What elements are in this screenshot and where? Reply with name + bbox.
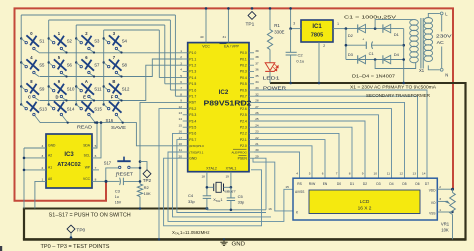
svg-text:P0.5: P0.5 (240, 82, 247, 86)
capacitor C5 33p (227, 187, 245, 210)
svg-text:IC3: IC3 (64, 152, 74, 158)
svg-text:A: A (85, 79, 88, 84)
IC3 ground tie wire (GND/A2/A1) (23, 148, 46, 209)
svg-text:S1–S17 = PUSH TO ON SWITCH: S1–S17 = PUSH TO ON SWITCH (49, 212, 131, 218)
switch S1 (key 0) (20, 31, 45, 52)
svg-text:P2.6: P2.6 (240, 107, 247, 111)
svg-text:P0.1: P0.1 (240, 57, 247, 61)
svg-text:WP: WP (85, 165, 91, 169)
wire P3.6 nest run (173, 133, 272, 217)
ground rail (power supply) (270, 82, 466, 84)
svg-text:VCC: VCC (83, 177, 91, 181)
svg-text:D5: D5 (402, 182, 406, 186)
bridge bottom branch wire (346, 59, 404, 61)
svg-text:ALE/PROG: ALE/PROG (231, 150, 247, 154)
svg-text:2: 2 (323, 44, 325, 48)
switch S14 (key D) (48, 95, 75, 124)
svg-text:10K: 10K (441, 227, 449, 232)
wire IC2 to LCD pin 11 (254, 109, 392, 179)
svg-text:7: 7 (336, 171, 338, 175)
svg-text:P2.7: P2.7 (240, 101, 247, 105)
node R2-ground (139, 207, 142, 210)
svg-text:S8: S8 (122, 63, 128, 68)
svg-text:5: 5 (95, 144, 97, 148)
svg-text:D6: D6 (415, 182, 419, 186)
svg-text:TP0: TP0 (76, 227, 85, 233)
svg-text:AT24C02: AT24C02 (57, 162, 81, 168)
svg-text:1: 1 (337, 22, 339, 26)
svg-text:D2: D2 (348, 33, 354, 38)
+5V supply net (red) (15, 8, 454, 200)
svg-text:P1.4: P1.4 (189, 76, 196, 80)
svg-text:TP1: TP1 (246, 21, 255, 27)
bridge right vertical wire to ground rail (403, 29, 405, 83)
svg-text:6: 6 (322, 171, 324, 175)
svg-text:5: 5 (309, 171, 311, 175)
switch S5 (key 4) (20, 55, 45, 76)
svg-text:D: D (55, 95, 58, 100)
resistor R1 330E (267, 7, 284, 63)
diode D1 1N4007 (383, 24, 400, 37)
svg-text:P1.0: P1.0 (189, 51, 196, 55)
bridge left vertical wire (345, 29, 347, 60)
svg-text:XTAL1=11.0592MHz: XTAL1=11.0592MHz (172, 230, 210, 236)
svg-text:P0.0: P0.0 (240, 51, 247, 55)
svg-text:EN: EN (323, 182, 328, 186)
svg-text:1: 1 (439, 208, 441, 212)
IC2 P89V51RD2 microcontroller (179, 43, 259, 172)
svg-text:value?: value? (224, 189, 235, 193)
svg-text:P1.3: P1.3 (189, 70, 196, 74)
svg-text:C4: C4 (188, 193, 194, 198)
svg-text:R/W: R/W (309, 182, 316, 186)
wire IC2 to LCD pin 12 (254, 102, 405, 178)
wire P3.1 to LCD A/VSS (168, 152, 293, 221)
diode D4 1N4007 (383, 52, 400, 64)
svg-text:C1 = 1000u,25V: C1 = 1000u,25V (344, 15, 397, 20)
svg-text:2: 2 (439, 185, 441, 189)
svg-text:RESET: RESET (116, 171, 133, 176)
svg-text:SCL: SCL (84, 153, 91, 157)
svg-text:VDD: VDD (429, 189, 436, 193)
svg-text:6: 6 (95, 154, 97, 158)
svg-text:39: 39 (255, 49, 259, 53)
svg-text:(RXD)P3.0: (RXD)P3.0 (189, 144, 204, 148)
svg-text:S12: S12 (122, 87, 130, 92)
IC3 WP stub (92, 169, 99, 171)
frame right edge (464, 82, 466, 241)
svg-text:8: 8 (180, 92, 182, 96)
switch S12 (key B) (103, 79, 130, 101)
svg-text:16: 16 (268, 207, 272, 211)
wire IC2 to LCD pin 10 (254, 115, 379, 178)
switch S11 (key A) (75, 79, 102, 101)
svg-text:+: + (362, 37, 364, 41)
svg-text:VO: VO (431, 201, 436, 205)
svg-text:3: 3 (293, 21, 295, 25)
ground symbol (220, 238, 245, 247)
svg-text:S10: S10 (67, 87, 75, 92)
svg-text:9: 9 (362, 171, 364, 175)
svg-text:+: + (115, 174, 117, 178)
IC3 AT24C02 EEPROM (41, 134, 96, 188)
terminal N (440, 68, 448, 77)
svg-text:36: 36 (255, 68, 259, 72)
capacitor C4 33p (188, 193, 211, 208)
IC2 pin 31 EA wire to +5V (227, 8, 229, 42)
svg-text:S11: S11 (94, 87, 102, 92)
svg-text:38: 38 (255, 55, 259, 59)
svg-text:P3.5: P3.5 (189, 126, 196, 130)
node IC1 pin2 ground (318, 82, 321, 85)
svg-text:P0.4: P0.4 (240, 76, 247, 80)
switch S15 (key E) (75, 95, 102, 124)
svg-text:40: 40 (200, 35, 204, 39)
svg-text:31: 31 (223, 35, 227, 39)
svg-text:GND: GND (189, 157, 197, 161)
svg-text:P3.4: P3.4 (189, 119, 196, 123)
svg-text:C5: C5 (238, 194, 244, 199)
IC1 7805 regulator (293, 20, 339, 48)
svg-text:LCD: LCD (360, 199, 370, 205)
svg-text:RS: RS (297, 182, 302, 186)
svg-text:TP2: TP2 (143, 178, 152, 183)
svg-text:S2: S2 (67, 39, 73, 44)
svg-text:37: 37 (255, 61, 259, 65)
svg-text:13: 13 (179, 111, 183, 115)
svg-text:IC1: IC1 (312, 24, 322, 30)
svg-text:D3: D3 (376, 182, 380, 186)
svg-text:XTAL1: XTAL1 (226, 167, 237, 171)
wire primary bottom to N (428, 65, 440, 69)
LCD pin 1 VSS wire to ground (437, 211, 452, 213)
terminal L (440, 11, 448, 16)
svg-text:XTAL2: XTAL2 (206, 167, 217, 171)
switch S2 (key 1) (48, 31, 73, 53)
wire transformer secondary bottom (375, 60, 416, 69)
switch S6 (key 5) (48, 55, 73, 77)
svg-text:10K: 10K (144, 191, 151, 196)
svg-text:RST: RST (189, 101, 196, 105)
svg-text:A1: A1 (48, 165, 52, 169)
svg-text:D4: D4 (389, 182, 393, 186)
IC2 pin 18 XTAL2 wire (206, 172, 208, 196)
svg-text:READ: READ (77, 124, 93, 130)
svg-text:S3: S3 (94, 39, 100, 44)
svg-text:1: 1 (180, 49, 182, 53)
svg-text:15: 15 (179, 123, 183, 127)
svg-text:7: 7 (180, 86, 182, 90)
capacitor C1 1000u 25V (345, 37, 405, 56)
wire P3.7 nest run (177, 140, 266, 213)
svg-text:19: 19 (225, 175, 229, 179)
svg-text:D3: D3 (348, 52, 354, 57)
svg-text:(TXD)P3.1: (TXD)P3.1 (189, 150, 204, 154)
wire crystal ground line to rail (207, 209, 266, 212)
svg-text:SECONDARY TRANSFORMER: SECONDARY TRANSFORMER (366, 93, 431, 98)
svg-text:A2: A2 (48, 153, 52, 157)
svg-text:S15: S15 (94, 107, 102, 112)
wire S17 right to RST net (130, 167, 140, 169)
svg-text:D2: D2 (363, 182, 367, 186)
IC3 SCL wire (92, 123, 101, 158)
svg-text:8: 8 (95, 177, 97, 181)
ground rail (bottom left) (23, 208, 207, 210)
row 2 wire to P1.1 (40, 59, 183, 77)
row 3 wire to P1.2 (40, 65, 183, 100)
wire IC2 GND loop (164, 158, 262, 226)
svg-text:13: 13 (413, 171, 417, 175)
svg-text:7: 7 (95, 166, 97, 170)
wire S17 left to +5V (106, 168, 119, 182)
svg-text:P2.5: P2.5 (240, 113, 247, 117)
wire transformer secondary top (375, 20, 413, 29)
svg-text:D4: D4 (394, 52, 400, 57)
svg-text:C3: C3 (115, 189, 121, 194)
svg-text:S14: S14 (67, 107, 75, 112)
svg-text:C2: C2 (298, 53, 304, 58)
row 4 wire to P3.0 (40, 123, 183, 146)
svg-text:34: 34 (255, 80, 259, 84)
keypad column 2 wire (48, 20, 50, 105)
svg-text:VSS: VSS (429, 212, 435, 216)
wire IC2 to LCD pin 13 (254, 96, 418, 178)
svg-text:4: 4 (41, 144, 43, 148)
svg-text:33p: 33p (188, 199, 195, 204)
crystal XTAL1 11.0592MHz (206, 182, 236, 203)
keypad column 4 wire (103, 30, 105, 105)
bridge top branch wire (346, 28, 404, 30)
svg-text:1: 1 (41, 177, 43, 181)
svg-text:B: B (112, 79, 115, 84)
svg-text:D0: D0 (337, 182, 341, 186)
resistor R2 10K (137, 184, 151, 209)
test point TP2 (140, 162, 152, 184)
svg-text:7805: 7805 (311, 33, 323, 39)
svg-text:E: E (83, 95, 86, 100)
svg-text:4: 4 (180, 68, 182, 72)
svg-text:0.1u: 0.1u (296, 59, 304, 64)
wire IC1 pin2 to ground rail (318, 42, 320, 83)
svg-text:A0: A0 (48, 177, 52, 181)
switch S16 (key F) (103, 95, 124, 124)
RST net wire from IC2 pin 9 (140, 102, 183, 184)
switch S7 (key 6) (75, 55, 100, 77)
svg-text:P3.2: P3.2 (189, 107, 196, 111)
svg-text:P2.4: P2.4 (240, 119, 247, 123)
frame left edge (23, 209, 25, 240)
svg-text:S16: S16 (106, 118, 114, 123)
svg-text:P1.5: P1.5 (189, 82, 196, 86)
wire L to N (mains) (441, 15, 443, 68)
IC3 SDA wire (92, 123, 97, 148)
svg-text:35: 35 (255, 74, 259, 78)
svg-text:16V: 16V (115, 201, 122, 205)
svg-text:GND: GND (48, 143, 56, 147)
svg-text:EA / VPP: EA / VPP (224, 45, 239, 49)
svg-text:S4: S4 (122, 39, 128, 44)
switch S3 (key 2) (75, 31, 100, 53)
svg-text:SDA: SDA (83, 143, 91, 147)
svg-text:16 X 2: 16 X 2 (358, 206, 372, 212)
svg-text:3: 3 (439, 197, 441, 201)
switch S8 (key 7) (103, 55, 128, 77)
LCD pin 3 VO wire to VR1 wiper (437, 200, 444, 202)
node VDD / +5V / VR1 (451, 188, 454, 191)
wire IC2 to LCD pin 7 (254, 133, 339, 178)
svg-text:S13: S13 (39, 107, 47, 112)
LCD 16x2 module (268, 171, 441, 220)
svg-text:1u: 1u (115, 195, 119, 199)
svg-text:5: 5 (180, 74, 182, 78)
svg-text:P3.6: P3.6 (189, 132, 196, 136)
svg-text:33p: 33p (238, 199, 245, 204)
wire IC2 to LCD pin 6 (254, 140, 325, 179)
diode D3 1N4007 (348, 52, 366, 64)
svg-text:LED1: LED1 (263, 75, 281, 80)
keypad column 3 wire (75, 25, 77, 105)
svg-text:3: 3 (180, 61, 182, 65)
wire PSEN to crystal ground line (254, 158, 266, 210)
IC2 pin 19 XTAL1 wire (230, 172, 232, 198)
wire IC2 to LCD pin 5 (254, 146, 312, 178)
svg-text:VCC: VCC (202, 45, 210, 49)
svg-text:P0.3: P0.3 (240, 70, 247, 74)
svg-text:10: 10 (374, 171, 378, 175)
svg-text:8: 8 (349, 171, 351, 175)
svg-text:P1.6: P1.6 (189, 88, 196, 92)
svg-text:P2.0: P2.0 (240, 144, 247, 148)
svg-text:P1.1: P1.1 (189, 57, 196, 61)
mains 230V AC label (436, 33, 452, 45)
svg-text:P0.7: P0.7 (240, 95, 247, 99)
svg-text:S5: S5 (39, 63, 45, 68)
wire P3.2 ground tie (159, 109, 183, 240)
svg-text:N: N (445, 73, 448, 78)
test point TP1 (246, 7, 256, 27)
svg-text:PSEN: PSEN (238, 157, 248, 161)
svg-text:X1: X1 (419, 68, 425, 73)
svg-text:12: 12 (400, 171, 404, 175)
svg-text:TP0 – TP3 = TEST POINTS: TP0 – TP3 = TEST POINTS (41, 244, 111, 250)
switch S17 RESET push-to-on (104, 157, 134, 177)
svg-text:GND: GND (232, 241, 246, 247)
svg-text:P2.2: P2.2 (240, 132, 247, 136)
svg-text:230V: 230V (436, 33, 452, 38)
capacitor C3 1u 16V (106, 174, 142, 204)
wire IC1 pin3 output to +5V (289, 7, 301, 30)
test point TP0 (67, 225, 85, 239)
svg-text:3: 3 (41, 154, 43, 158)
frame bottom edge (23, 238, 466, 241)
svg-text:330E: 330E (274, 30, 284, 35)
svg-text:14: 14 (422, 171, 426, 175)
LED1 power indicator (263, 63, 287, 91)
IC2 pin 40 VCC wire to +5V (205, 8, 207, 42)
LCD pin 2 VDD wire to +5V (437, 188, 452, 190)
svg-text:SAVE: SAVE (111, 125, 126, 131)
svg-text:D7: D7 (425, 182, 429, 186)
svg-text:15: 15 (285, 185, 289, 189)
svg-text:R2: R2 (144, 185, 150, 190)
transformer X1 230V AC primary to 9V 500mA (410, 18, 433, 73)
svg-text:P0.2: P0.2 (240, 64, 247, 68)
wire IC2 to LCD pin 9 (254, 121, 365, 178)
svg-text:POWER: POWER (263, 85, 287, 90)
wire IC2 to LCD pin 14 (254, 90, 427, 178)
svg-text:P2.1: P2.1 (240, 138, 247, 142)
wire PSEN jog to LCD K (253, 158, 293, 211)
svg-text:P3.3: P3.3 (189, 113, 196, 117)
svg-text:X1 = 230V AC PRIMARY TO 9V,500: X1 = 230V AC PRIMARY TO 9V,500mA (350, 84, 437, 89)
svg-text:AC: AC (437, 40, 445, 45)
svg-text:P0.6: P0.6 (240, 88, 247, 92)
diode D2 1N4007 (348, 24, 366, 38)
switch S4 (key 3) (103, 31, 128, 53)
keypad column 1 wire (20, 15, 22, 105)
wire IC1 pin1 to bridge (333, 28, 346, 30)
scan edge mark (0, 246, 2, 251)
svg-text:S9: S9 (39, 87, 45, 92)
switch S10 (key 9) (48, 79, 75, 101)
svg-text:C1: C1 (369, 51, 375, 56)
svg-text:C: C (28, 95, 31, 100)
svg-text:P2.3: P2.3 (240, 126, 247, 130)
switch S13 (key C) (20, 95, 47, 123)
capacitor C2 0.1u (286, 29, 305, 85)
svg-text:D1: D1 (350, 182, 354, 186)
potentiometer VR1 10K (441, 189, 455, 239)
svg-text:S17: S17 (104, 160, 112, 165)
ground rail end junction (205, 207, 208, 210)
svg-text:18: 18 (201, 175, 205, 179)
svg-text:4: 4 (296, 171, 298, 175)
IC3 A0 wire to ground (35, 181, 46, 208)
switch S9 (key 8) (20, 79, 45, 100)
wire IC2 to LCD pin 8 (254, 127, 352, 178)
svg-text:S1: S1 (39, 39, 45, 44)
svg-text:VR1: VR1 (441, 221, 450, 226)
svg-text:D1: D1 (394, 32, 400, 37)
svg-text:P1.7: P1.7 (189, 95, 196, 99)
wire primary top to L (428, 13, 440, 17)
node RST-TP2 (139, 160, 142, 163)
svg-text:11: 11 (387, 171, 390, 175)
svg-text:D1–D4 = 1N4007: D1–D4 = 1N4007 (352, 73, 396, 78)
svg-text:2: 2 (180, 55, 182, 59)
svg-text:A/VSS: A/VSS (295, 190, 304, 194)
svg-text:S7: S7 (94, 63, 100, 68)
svg-text:R1: R1 (274, 23, 280, 28)
svg-text:2: 2 (41, 166, 43, 170)
svg-text:IC2: IC2 (219, 89, 229, 96)
svg-text:P1.2: P1.2 (189, 64, 196, 68)
wire IC2 to LCD pin 4 (254, 152, 300, 178)
svg-text:F: F (111, 95, 114, 100)
svg-text:6: 6 (180, 80, 182, 84)
node IC3 VCC / +5V (105, 180, 108, 183)
svg-text:10: 10 (179, 142, 183, 146)
row 1 wire to P1.0 (39, 52, 183, 54)
IC3 VCC wire to +5V (92, 180, 106, 182)
svg-text:14: 14 (179, 117, 183, 121)
svg-text:S6: S6 (67, 63, 73, 68)
svg-text:P3.7: P3.7 (189, 138, 196, 142)
